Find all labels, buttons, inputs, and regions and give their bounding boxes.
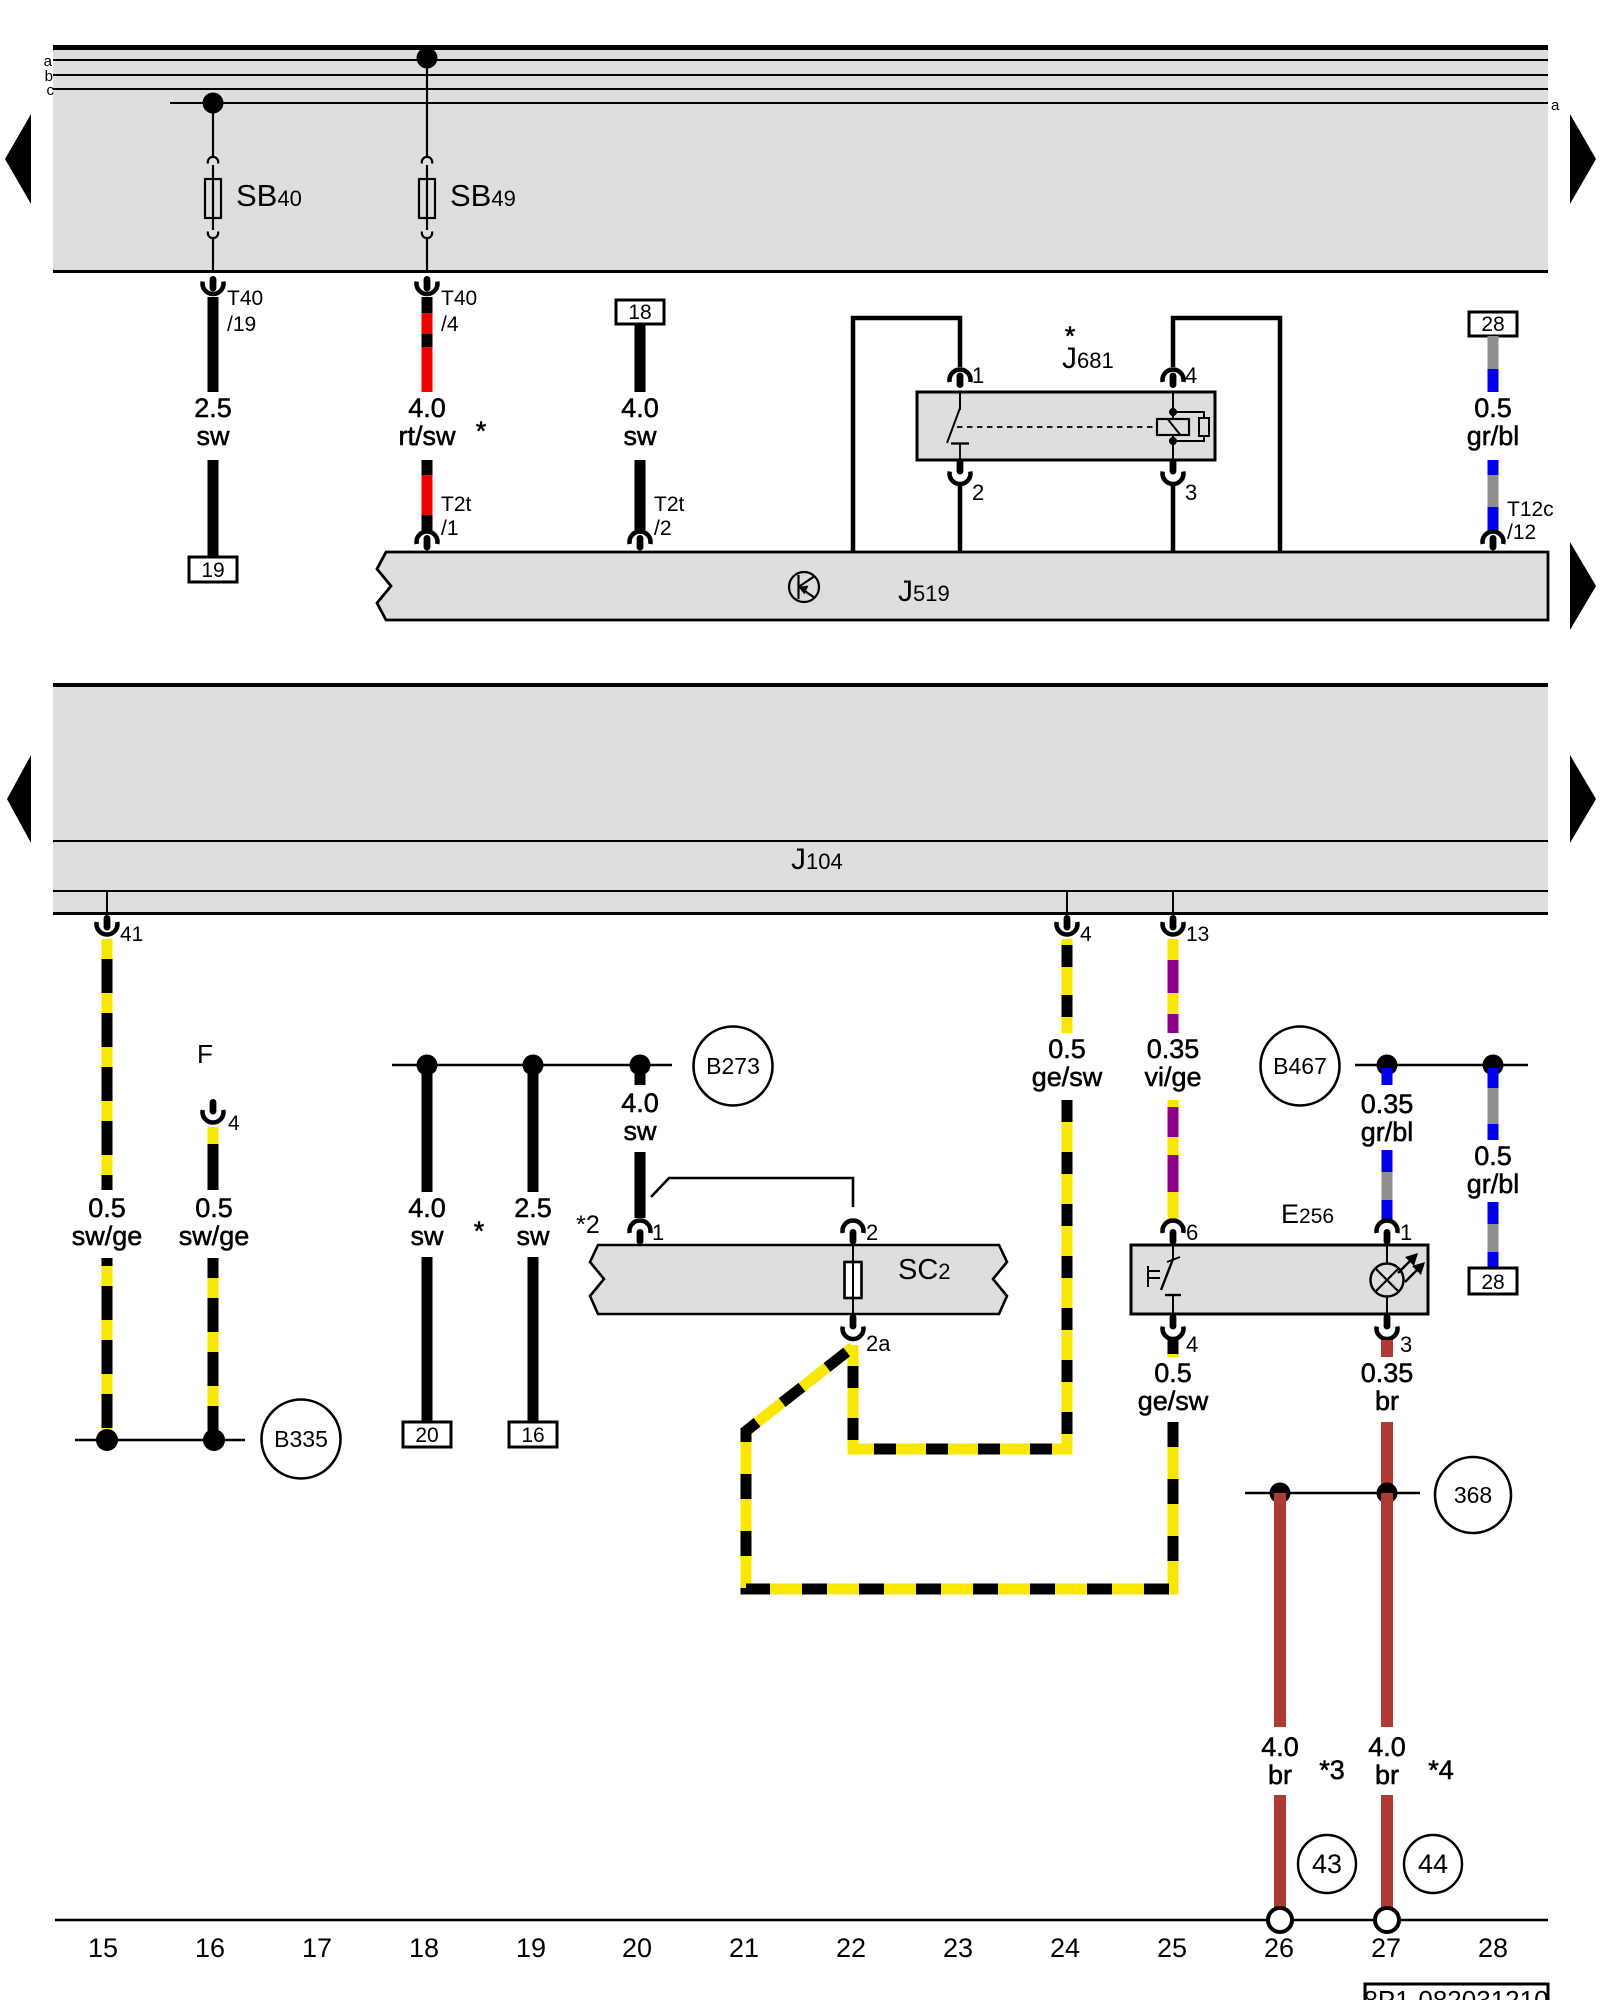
svg-text:sw/ge: sw/ge <box>179 1221 250 1251</box>
wire terminal2 to J519 <box>958 485 963 552</box>
junction B273 <box>392 1027 773 1106</box>
connector F <box>197 1039 240 1135</box>
wire 0.35 gr/bl lower <box>1382 1150 1393 1222</box>
wire 0.5 gr/bl upper <box>1488 336 1499 392</box>
svg-text:*: * <box>1065 321 1076 351</box>
svg-text:2a: 2a <box>866 1331 891 1356</box>
svg-text:sw: sw <box>197 421 231 451</box>
svg-text:br: br <box>1268 1760 1292 1790</box>
svg-text:sw: sw <box>624 1116 658 1146</box>
terminal 1 J681 <box>950 363 985 388</box>
wire 2.5 sw col19b lower <box>528 1257 539 1422</box>
terminal box 18 <box>616 300 664 324</box>
wire 0.5 ge/sw path to 2a <box>853 1100 1067 1449</box>
wire 0.5 ge/sw from J104 pin4 upper <box>1062 939 1073 1033</box>
svg-text:sw: sw <box>517 1221 551 1251</box>
terminal 41 J104 <box>97 891 144 946</box>
wire 0.5 sw/ge col15 lower <box>102 1258 113 1440</box>
wire 0.5 gr/bl col28 lower <box>1488 1202 1499 1268</box>
ground point 27 <box>1375 1908 1399 1932</box>
relay parallel resistor <box>1173 412 1209 441</box>
svg-text:/19: /19 <box>227 313 256 336</box>
svg-text:44: 44 <box>1418 1849 1448 1879</box>
terminal T40/4 <box>417 276 478 336</box>
ground point 26 <box>1268 1908 1292 1932</box>
svg-text:1: 1 <box>972 363 984 388</box>
svg-text:3: 3 <box>1185 480 1197 505</box>
svg-text:sw: sw <box>624 421 658 451</box>
svg-text:0.35: 0.35 <box>1361 1358 1414 1388</box>
wire 2.5 sw col19b upper <box>528 1065 539 1192</box>
terminal box 19 <box>189 557 237 582</box>
svg-text:0.5: 0.5 <box>1474 393 1512 423</box>
svg-text:0.5: 0.5 <box>1048 1034 1086 1064</box>
terminal 4 E256 <box>1163 1314 1199 1357</box>
wire br stub below E256 pin3 <box>1381 1340 1393 1357</box>
svg-text:T12c: T12c <box>1507 498 1554 521</box>
svg-text:F: F <box>197 1039 213 1069</box>
svg-text:gr/bl: gr/bl <box>1467 1169 1520 1199</box>
wire 4.0 br col26 lower <box>1274 1795 1286 1908</box>
wire 0.35 vi/ge lower <box>1168 1100 1179 1222</box>
terminal 1 E256 <box>1377 1220 1413 1245</box>
svg-text:sw: sw <box>411 1221 445 1251</box>
svg-text:20: 20 <box>622 1933 652 1963</box>
ground 43 circle label <box>1298 1835 1356 1893</box>
svg-text:27: 27 <box>1371 1933 1401 1963</box>
wire 0.5 sw/ge col15 upper <box>102 939 113 1190</box>
terminal box 16 <box>509 1422 557 1447</box>
svg-text:2.5: 2.5 <box>514 1193 552 1223</box>
ground 44 circle label <box>1404 1835 1462 1893</box>
svg-text:26: 26 <box>1264 1933 1294 1963</box>
svg-text:vi/ge: vi/ge <box>1144 1062 1201 1092</box>
svg-text:2: 2 <box>972 480 984 505</box>
terminal 2 J681 <box>950 459 985 505</box>
svg-text:25: 25 <box>1157 1933 1187 1963</box>
wire 4.0 sw col18b lower <box>422 1257 433 1422</box>
terminal box 20 <box>403 1422 451 1447</box>
terminal 13 J104 <box>1163 891 1210 946</box>
svg-text:*2: *2 <box>576 1211 600 1239</box>
grid numbers <box>88 1933 1508 1963</box>
svg-text:28: 28 <box>1481 313 1504 336</box>
svg-text:4.0: 4.0 <box>408 393 446 423</box>
terminal T2t/1 <box>417 493 472 551</box>
svg-text:rt/sw: rt/sw <box>399 421 456 451</box>
wire J681 right loop <box>1173 318 1280 552</box>
svg-text:B467: B467 <box>1273 1053 1327 1079</box>
svg-text:0.5: 0.5 <box>1474 1141 1512 1171</box>
junction B467 <box>1261 1027 1529 1106</box>
node on rail a2 <box>203 93 224 114</box>
bottom rail <box>55 1919 1548 1922</box>
electronics symbol in J519 <box>789 572 819 602</box>
svg-text:/1: /1 <box>441 517 459 540</box>
svg-text:24: 24 <box>1050 1933 1080 1963</box>
terminal box 28 lower <box>1469 1268 1517 1294</box>
wire 4.0 sw col18b upper <box>422 1065 433 1192</box>
svg-text:sw/ge: sw/ge <box>72 1221 143 1251</box>
svg-text:28: 28 <box>1478 1933 1508 1963</box>
svg-text:T2t: T2t <box>654 493 685 516</box>
svg-text:1: 1 <box>652 1220 664 1245</box>
svg-text:3: 3 <box>1400 1332 1412 1357</box>
svg-text:ge/sw: ge/sw <box>1138 1386 1209 1416</box>
svg-text:43: 43 <box>1312 1849 1342 1879</box>
E256 lamp symbol <box>1371 1245 1426 1314</box>
right arrow top <box>1570 114 1596 204</box>
wire ge/sw stub below E256 pin4 <box>1168 1340 1179 1357</box>
right arrow J519 <box>1570 542 1596 630</box>
svg-text:4.0: 4.0 <box>1261 1732 1299 1762</box>
wire 0.5 gr/bl col28 upper <box>1488 1068 1499 1140</box>
svg-text:B335: B335 <box>274 1426 328 1452</box>
svg-text:20: 20 <box>415 1424 438 1447</box>
svg-text:0.5: 0.5 <box>88 1193 126 1223</box>
svg-text:16: 16 <box>195 1933 225 1963</box>
svg-text:/4: /4 <box>441 313 459 336</box>
svg-text:0.35: 0.35 <box>1361 1089 1414 1119</box>
terminal 1 SC2 <box>630 1220 665 1245</box>
fuse link band SC2 <box>590 1245 1007 1314</box>
svg-text:368: 368 <box>1454 1482 1492 1508</box>
svg-text:4: 4 <box>228 1112 240 1135</box>
svg-text:*4: *4 <box>1428 1755 1454 1785</box>
svg-text:28: 28 <box>1481 1271 1504 1294</box>
svg-text:gr/bl: gr/bl <box>1467 421 1520 451</box>
svg-text:23: 23 <box>943 1933 973 1963</box>
wire J681 left loop <box>853 318 960 552</box>
svg-text:*: * <box>474 1216 485 1246</box>
svg-text:6: 6 <box>1186 1220 1198 1245</box>
wire 4.0 sw col18 upper <box>635 324 646 392</box>
svg-text:2.5: 2.5 <box>194 393 232 423</box>
wire 0.5 sw/ge colF upper <box>208 1127 219 1190</box>
svg-text:4: 4 <box>1080 923 1092 946</box>
terminal T12c/12 <box>1483 498 1554 551</box>
relay J681 body <box>917 392 1215 460</box>
junction 368 <box>1245 1457 1511 1533</box>
svg-text:21: 21 <box>729 1933 759 1963</box>
wire 4.0 br col27 lower <box>1381 1795 1393 1908</box>
svg-text:a: a <box>1551 97 1560 114</box>
svg-text:/2: /2 <box>654 517 672 540</box>
wire 4.0 rt/sw lower <box>422 460 433 530</box>
svg-text:B273: B273 <box>706 1053 760 1079</box>
svg-text:ge/sw: ge/sw <box>1032 1062 1103 1092</box>
fuse SB40 <box>205 103 302 273</box>
junction B335 <box>75 1400 341 1479</box>
rail line a <box>53 59 1548 61</box>
relay coil <box>1157 392 1189 460</box>
svg-text:E256: E256 <box>1281 1199 1334 1229</box>
svg-text:*3: *3 <box>1319 1755 1345 1785</box>
svg-text:br: br <box>1375 1386 1399 1416</box>
wire 4.0 rt/sw upper <box>422 297 433 392</box>
svg-text:T40: T40 <box>227 287 263 310</box>
fuse SB49 <box>419 58 516 273</box>
left arrow top <box>5 114 31 204</box>
bridge wire 1 to 2 <box>651 1178 853 1207</box>
svg-text:0.5: 0.5 <box>1154 1358 1192 1388</box>
svg-text:4.0: 4.0 <box>408 1193 446 1223</box>
diagram number box <box>1363 1984 1548 2000</box>
svg-text:22: 22 <box>836 1933 866 1963</box>
terminal 2a SC2 <box>843 1314 892 1356</box>
svg-text:0.35: 0.35 <box>1147 1034 1200 1064</box>
svg-text:1: 1 <box>1400 1220 1412 1245</box>
rail labels <box>44 53 1560 114</box>
svg-text:16: 16 <box>521 1424 544 1447</box>
terminal T2t/2 <box>630 493 685 551</box>
wire 0.5 ge/sw path E256 pin4 to 2a <box>746 1347 1173 1589</box>
wire 4.0 sw colSC upper <box>635 1065 646 1085</box>
main band J104 <box>53 683 1548 915</box>
svg-text:4.0: 4.0 <box>621 393 659 423</box>
svg-text:T2t: T2t <box>441 493 472 516</box>
svg-text:/12: /12 <box>1507 521 1536 544</box>
svg-text:c: c <box>47 82 55 99</box>
svg-text:4: 4 <box>1186 1332 1198 1357</box>
terminal 6 E256 <box>1163 1220 1199 1245</box>
wire 0.5 gr/bl lower <box>1488 460 1499 530</box>
relay switch contact <box>947 392 969 460</box>
control unit band J519 <box>377 552 1548 620</box>
svg-text:8P1-082031210: 8P1-082031210 <box>1363 1985 1548 2000</box>
svg-text:18: 18 <box>628 301 651 324</box>
svg-text:19: 19 <box>201 559 224 582</box>
rail line b <box>53 74 1548 76</box>
svg-text:13: 13 <box>1186 923 1209 946</box>
terminal T40/19 <box>203 276 264 336</box>
power rail band (top) <box>53 45 1548 273</box>
rail line c <box>53 88 1548 90</box>
svg-text:br: br <box>1375 1760 1399 1790</box>
E256 switch symbol <box>1148 1245 1181 1314</box>
wire 4.0 br col26 upper <box>1274 1493 1286 1727</box>
wire 4.0 sw colSC lower <box>635 1152 646 1218</box>
terminal box 28 top <box>1469 312 1517 336</box>
wire terminal3 to J519 <box>1171 485 1176 552</box>
rail line a2 <box>170 102 1548 104</box>
terminal 3 J681 <box>1163 459 1198 505</box>
right arrow J104 <box>1570 755 1596 843</box>
terminal 3 E256 <box>1377 1314 1413 1357</box>
left arrow J104 <box>7 755 31 843</box>
node on rail a <box>417 48 438 69</box>
svg-text:4.0: 4.0 <box>1368 1732 1406 1762</box>
wire 0.35 gr/bl stub <box>1382 1068 1393 1085</box>
svg-text:*: * <box>476 416 487 446</box>
svg-text:gr/bl: gr/bl <box>1361 1117 1414 1147</box>
svg-text:19: 19 <box>516 1933 546 1963</box>
relay actuation dashed line <box>957 426 1156 428</box>
svg-text:T40: T40 <box>441 287 477 310</box>
svg-text:41: 41 <box>120 923 143 946</box>
switch unit E256 body <box>1131 1245 1428 1314</box>
svg-text:SC2: SC2 <box>898 1254 951 1286</box>
svg-text:4.0: 4.0 <box>621 1088 659 1118</box>
svg-text:17: 17 <box>302 1933 332 1963</box>
wire 2.5 sw lower <box>208 460 219 557</box>
svg-text:0.5: 0.5 <box>195 1193 233 1223</box>
wire 0.5 sw/ge colF lower <box>208 1258 219 1440</box>
svg-text:2: 2 <box>866 1220 878 1245</box>
svg-text:4: 4 <box>1185 363 1197 388</box>
wire 0.35 vi/ge upper <box>1168 939 1179 1033</box>
wire 4.0 br col27 upper <box>1381 1493 1393 1727</box>
wire 2.5 sw upper <box>208 297 219 392</box>
terminal 2 SC2 <box>843 1220 879 1245</box>
svg-text:18: 18 <box>409 1933 439 1963</box>
terminal 4 J681 <box>1163 363 1198 388</box>
wire 0.35 br to junction 368 <box>1381 1422 1393 1493</box>
svg-text:15: 15 <box>88 1933 118 1963</box>
wire 4.0 sw col18 lower <box>635 460 646 530</box>
fuse symbol in SC2 <box>845 1245 862 1314</box>
terminal 4 J104 <box>1057 891 1093 946</box>
